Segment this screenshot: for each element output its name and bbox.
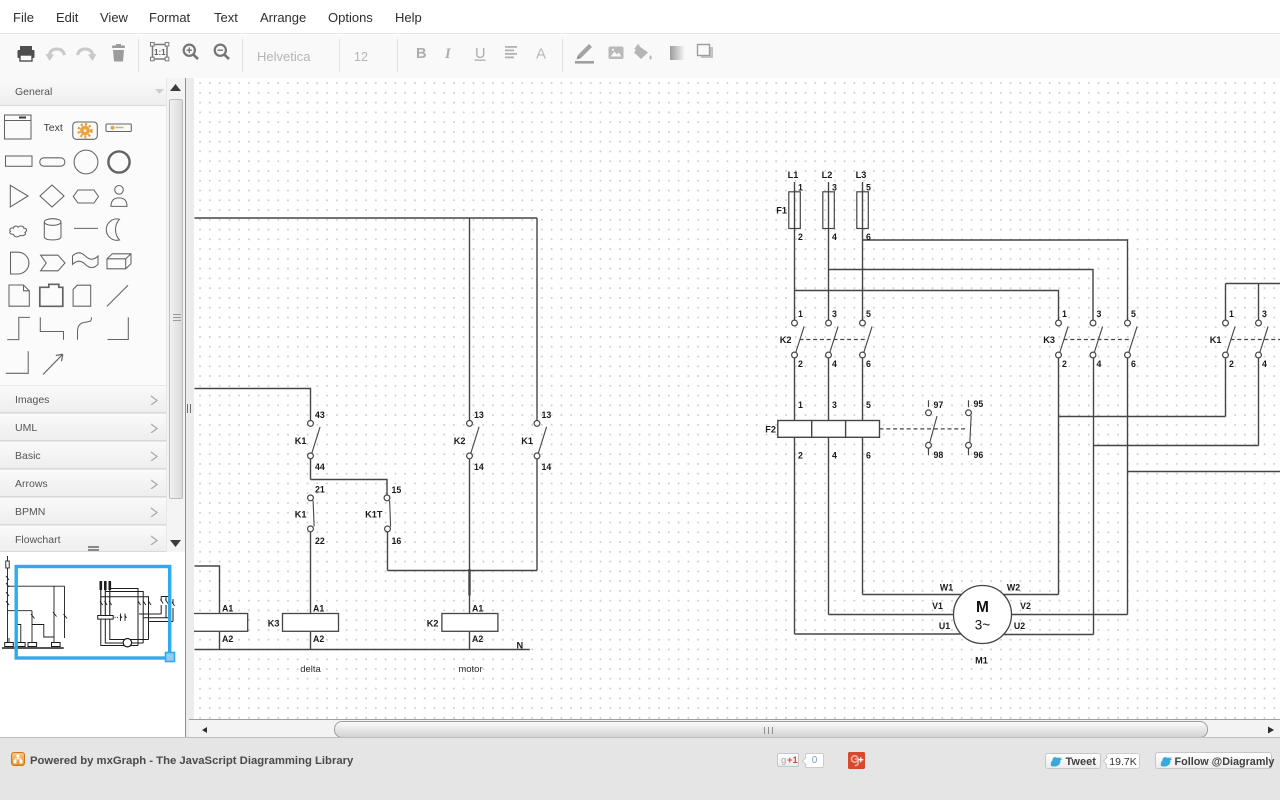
svg-text:5: 5	[866, 183, 871, 193]
svg-text:U2: U2	[1014, 621, 1025, 631]
wire motor U2 up to K3 pin4	[1003, 358, 1093, 635]
wire drop to K1 13	[536, 218, 538, 420]
svg-text:2: 2	[798, 451, 803, 461]
svg-text:L3: L3	[856, 170, 867, 180]
aux contact F2 95/96	[966, 400, 972, 455]
contactor K3 pole 3	[1125, 320, 1138, 358]
svg-text:A2: A2	[313, 634, 324, 644]
row1: label image	[106, 124, 131, 132]
wire F2 pin2 down	[794, 437, 796, 634]
svg-text:delta: delta	[300, 664, 321, 675]
wire coil K2 to N	[469, 631, 471, 649]
wire junction overlap at node	[468, 569, 470, 596]
wire K3 pin2 to K1 pin2	[1059, 358, 1226, 417]
svg-text:3~: 3~	[975, 618, 991, 633]
wire 44 to junction	[310, 459, 312, 480]
contactor K1 pole 2	[1256, 320, 1269, 358]
wire control top rail	[195, 217, 538, 219]
contactor K3 pole 1	[1056, 320, 1069, 358]
svg-text:F1: F1	[776, 206, 787, 216]
wire to motor U1	[795, 633, 963, 635]
contactor K1 pole 1	[1223, 320, 1236, 358]
wire K3 pin4 to K1 pin4	[1094, 358, 1259, 446]
svg-text:4: 4	[1262, 359, 1267, 369]
outline viewport rectangle	[16, 567, 170, 659]
redo (disabled)	[78, 49, 94, 58]
svg-text:K1: K1	[295, 436, 307, 446]
wire second rail to contact 43	[195, 389, 311, 421]
svg-text:5: 5	[866, 309, 871, 319]
wire coil K3 to N	[310, 631, 312, 649]
row4	[10, 226, 27, 237]
svg-text:M1: M1	[975, 656, 988, 666]
svg-text:1: 1	[798, 400, 803, 410]
linkage K2 dashed	[800, 339, 867, 341]
svg-text:97: 97	[934, 400, 944, 410]
wire branch L2 to K3 pin3	[829, 270, 1094, 321]
separator	[397, 39, 398, 72]
aux contact F2 97/98	[926, 400, 937, 455]
wire phase L1	[794, 182, 796, 320]
coil K2	[442, 614, 498, 632]
svg-text:3: 3	[1097, 309, 1102, 319]
wire K1 pin1 drop	[1225, 284, 1227, 321]
wire K2 pin4 to F2	[828, 358, 830, 421]
contact K2 13/14	[467, 421, 480, 459]
svg-text:4: 4	[832, 359, 837, 369]
wire branch L1 to K3 pin1	[795, 291, 1059, 321]
svg-text:W2: W2	[1007, 583, 1020, 593]
svg-text:K1T: K1T	[365, 510, 383, 520]
outline viewport handle	[166, 653, 175, 662]
svg-text:F2: F2	[765, 425, 776, 435]
motor terminal labels	[932, 583, 1031, 632]
label F1 and fuse pins	[776, 183, 871, 243]
row1: window shape	[5, 115, 32, 139]
contactor K2 pole 1	[792, 320, 805, 358]
svg-text:A: A	[536, 46, 546, 63]
splitter	[185, 78, 194, 737]
svg-text:14: 14	[542, 462, 552, 472]
svg-text:L1: L1	[788, 170, 799, 180]
svg-text:K2: K2	[780, 335, 792, 345]
svg-text:3: 3	[832, 183, 837, 193]
fill bucket	[634, 44, 652, 60]
label K3 and pins	[1043, 309, 1136, 369]
svg-text:2: 2	[1062, 359, 1067, 369]
svg-text:3: 3	[832, 400, 837, 410]
label F2 and pins	[765, 400, 871, 461]
wire K2 pin2 to F2	[794, 358, 796, 421]
svg-text:98: 98	[934, 450, 944, 460]
svg-text:U1: U1	[939, 621, 950, 631]
wire K2 pin6 to F2	[862, 358, 864, 421]
row5	[11, 252, 29, 274]
svg-text:3: 3	[1262, 309, 1267, 319]
wire branch to K1T 15	[311, 480, 388, 496]
wire 22 down to coil K3	[310, 532, 312, 614]
linkage K3 dashed	[1064, 339, 1132, 341]
wire phase L2	[828, 182, 830, 320]
svg-text:L2: L2	[822, 170, 833, 180]
separator	[562, 39, 563, 72]
fuse F1 pole 1	[789, 192, 801, 229]
separator	[339, 39, 340, 72]
svg-text:A2: A2	[222, 634, 233, 644]
undo (disabled)	[49, 49, 65, 58]
image icon	[609, 47, 624, 60]
row6	[9, 285, 29, 306]
coil K1 (partial at canvas edge)	[190, 614, 248, 632]
svg-text:1: 1	[798, 183, 803, 193]
wire coil K1 to N	[219, 631, 221, 649]
svg-text:A2: A2	[472, 634, 483, 644]
svg-text:K1: K1	[521, 436, 533, 446]
row3	[10, 185, 28, 207]
wire K1 supply rail	[1226, 283, 1280, 285]
svg-text:A1: A1	[313, 604, 324, 614]
svg-text:3: 3	[832, 309, 837, 319]
svg-text:95: 95	[974, 399, 984, 409]
sidebar scrollbar	[166, 78, 185, 552]
shadow icon	[701, 47, 713, 58]
svg-text:22: 22	[315, 536, 325, 546]
wire F2 pin6 down	[862, 437, 864, 594]
wire N rail	[195, 649, 530, 651]
svg-text:K1: K1	[295, 510, 307, 520]
1:1 actual size icon	[151, 43, 169, 61]
svg-text:K3: K3	[1043, 335, 1055, 345]
svg-text:B: B	[416, 46, 426, 62]
wire drop to K2 13	[469, 218, 471, 420]
align icon	[505, 46, 517, 58]
linkage F2 dashed	[880, 428, 967, 430]
svg-text:6: 6	[866, 451, 871, 461]
svg-text:15: 15	[392, 485, 402, 495]
svg-text:K2: K2	[454, 436, 466, 446]
trash	[112, 44, 125, 62]
svg-text:1:1: 1:1	[154, 48, 166, 57]
svg-text:5: 5	[866, 400, 871, 410]
wire horizontal 16 to K1 14	[388, 570, 538, 572]
outline miniature: coils on N rail	[2, 643, 64, 649]
svg-text:6: 6	[866, 232, 871, 242]
contact K1T 15/16 timer	[384, 495, 391, 532]
svg-text:1: 1	[1229, 309, 1234, 319]
zoom in	[184, 45, 198, 59]
row2	[6, 156, 33, 166]
svg-text:4: 4	[1097, 359, 1102, 369]
contactor K2 pole 3	[860, 320, 873, 358]
wire to motor W1	[863, 594, 963, 596]
pen / line color	[578, 44, 592, 58]
svg-text:K3: K3	[268, 619, 280, 629]
wire motor V2 up to K3 pin6	[1012, 358, 1128, 615]
svg-text:A1: A1	[472, 604, 483, 614]
fuse F1 pole 3	[857, 192, 869, 229]
svg-text:N: N	[517, 641, 524, 651]
svg-text:motor: motor	[458, 664, 482, 675]
label K1 and pins	[1210, 309, 1267, 369]
svg-text:W1: W1	[940, 583, 953, 593]
svg-text:13: 13	[474, 410, 484, 420]
contact K1 21/22	[308, 495, 315, 532]
svg-text:43: 43	[315, 410, 325, 420]
wire phase L3	[862, 182, 864, 320]
svg-text:K1: K1	[1210, 335, 1222, 345]
svg-text:5: 5	[1131, 309, 1136, 319]
motor M1	[954, 586, 1012, 644]
wire to motor V1	[829, 614, 954, 616]
wire 16 down	[387, 532, 389, 571]
svg-text:I: I	[444, 46, 452, 62]
svg-text:2: 2	[798, 232, 803, 242]
svg-text:21: 21	[315, 485, 325, 495]
svg-text:1: 1	[798, 309, 803, 319]
svg-text:13: 13	[542, 410, 552, 420]
svg-text:V2: V2	[1020, 601, 1031, 611]
svg-text:44: 44	[315, 462, 325, 472]
svg-text:4: 4	[832, 232, 837, 242]
svg-text:M: M	[976, 599, 989, 616]
svg-text:K2: K2	[427, 619, 439, 629]
svg-text:16: 16	[392, 536, 402, 546]
contactor K2 pole 2	[826, 320, 839, 358]
contact K1 13/14	[534, 421, 547, 459]
zoom out	[215, 45, 229, 59]
row7	[7, 317, 30, 339]
contact K1 43/44	[308, 421, 321, 459]
svg-text:14: 14	[474, 462, 484, 472]
separator	[242, 39, 243, 72]
separator	[138, 39, 139, 72]
svg-text:6: 6	[866, 359, 871, 369]
wire K2 14 down to coil K2	[469, 459, 471, 614]
wire K3 pin6 toward K1 pin6	[1128, 471, 1280, 473]
wire motor W2 up to K3 pin2	[1003, 358, 1058, 595]
outline miniature: left control circuit	[6, 556, 67, 646]
fuse F1 pole 2	[823, 192, 835, 229]
outline miniature: right power circuit	[98, 581, 175, 647]
svg-text:A1: A1	[222, 604, 233, 614]
svg-text:2: 2	[798, 359, 803, 369]
wire branch L3 to K3 pin5	[863, 240, 1128, 320]
coil K3	[283, 614, 339, 632]
svg-text:96: 96	[974, 450, 984, 460]
wire up to K1 14	[536, 459, 538, 571]
print icon	[18, 46, 35, 61]
wire K1 pin3 drop	[1258, 284, 1260, 321]
svg-text:1: 1	[1062, 309, 1067, 319]
svg-text:6: 6	[1131, 359, 1136, 369]
row1: gear image	[73, 122, 98, 139]
svg-text:2: 2	[1229, 359, 1234, 369]
label K2 and pins	[780, 309, 871, 369]
row8	[6, 351, 28, 373]
wire left branch to coil K1	[195, 566, 220, 614]
wire F2 pin4 down	[828, 437, 830, 614]
linkage K1 dashed	[1231, 339, 1280, 341]
svg-text:V1: V1	[932, 601, 943, 611]
contactor K3 pole 2	[1090, 320, 1103, 358]
overload relay F2	[778, 421, 880, 438]
svg-text:4: 4	[832, 451, 837, 461]
